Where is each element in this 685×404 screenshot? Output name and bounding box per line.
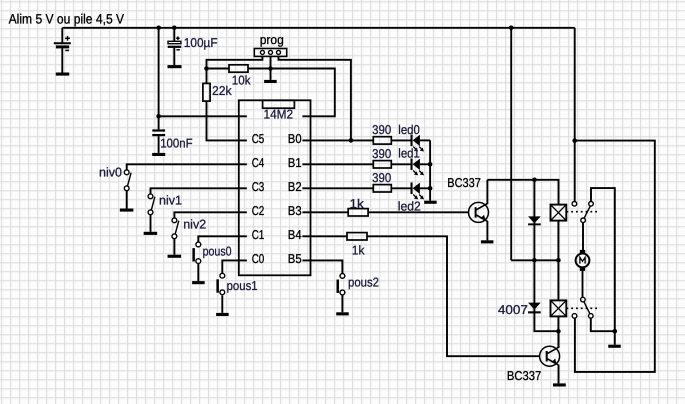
relay coil RL2 <box>551 300 567 316</box>
wire niv2 to ground <box>173 239 175 255</box>
svg-text:C2: C2 <box>252 203 265 218</box>
resistor R4 390 <box>373 161 391 168</box>
wire Q1 emitter <box>486 221 488 240</box>
resistor R1 10k <box>229 65 248 72</box>
wire 1k to Q2 base <box>367 236 540 356</box>
wire led cathode bus <box>429 140 431 200</box>
svg-text:niv1: niv1 <box>159 192 182 207</box>
wire +V rail right drop <box>574 28 576 141</box>
wire 1k to Q1 base <box>368 211 469 213</box>
capacitor C1 100uF (polarised) <box>168 28 182 65</box>
junction dot led bus B1 <box>428 162 433 167</box>
svg-text:B1: B1 <box>288 155 302 170</box>
wire SW2 right contact <box>591 318 615 331</box>
svg-text:4007: 4007 <box>498 302 528 317</box>
resistor R2 22k <box>203 83 210 101</box>
junction dot 100nF branch <box>156 26 161 31</box>
svg-text:100µF: 100µF <box>184 35 218 50</box>
wire motor to SW2 common <box>582 271 584 297</box>
relay contact SW2 <box>572 297 593 318</box>
resistor R7 1k <box>347 233 367 240</box>
diode D1 <box>528 216 541 225</box>
wire +V down to relay common <box>510 28 512 260</box>
svg-text:390: 390 <box>372 170 391 185</box>
transistor Q1 BC337 <box>469 202 489 222</box>
svg-text:pous2: pous2 <box>348 274 379 289</box>
push switch pous2 <box>337 274 345 295</box>
svg-text:14M2: 14M2 <box>264 107 294 122</box>
junction dot coil node <box>556 258 561 263</box>
svg-text:C1: C1 <box>252 227 265 242</box>
junction dot SW2 right contact <box>613 329 618 334</box>
wire SW1 common to motor <box>582 223 584 250</box>
switch niv2 <box>172 218 179 239</box>
junction dot relay contact feed <box>572 138 577 143</box>
wire pous0 to C1 <box>198 236 247 242</box>
svg-text:10k: 10k <box>232 72 251 87</box>
ground (100nF) <box>152 153 165 156</box>
junction dot diode chain mid <box>532 258 537 263</box>
wire pous0 to ground <box>197 264 199 282</box>
wire led2 to bus <box>420 187 430 189</box>
wire prog pin2 to ground <box>270 56 272 80</box>
svg-text:prog: prog <box>260 32 284 47</box>
ground (pous0) <box>192 281 205 284</box>
ground (contacts) <box>608 345 621 348</box>
ground (pous2) <box>336 312 349 315</box>
svg-text:1k: 1k <box>352 243 365 258</box>
wire coil RL1 to coil RL2 <box>557 221 559 301</box>
svg-text:pous0: pous0 <box>203 244 232 259</box>
wire SW1 right contact loop <box>591 188 615 345</box>
wire B5 to pous2 <box>302 260 342 273</box>
switch niv0 <box>124 170 131 191</box>
resistor R5 390 <box>373 185 391 192</box>
wire divider to 10k <box>207 68 230 70</box>
relay contact SW1 <box>572 202 593 223</box>
LED led0 <box>411 135 425 152</box>
wire niv1 to ground <box>150 215 152 232</box>
wire B1 row <box>302 163 373 165</box>
svg-text:niv0: niv0 <box>99 164 122 179</box>
wire prog pin1 to divider <box>207 56 263 68</box>
ground (pous1) <box>216 313 229 316</box>
relay coil RL1 <box>551 205 567 221</box>
wire Q1 collector <box>486 180 488 204</box>
svg-text:led1: led1 <box>398 146 420 161</box>
svg-text:B2: B2 <box>288 179 302 194</box>
wire B0 row <box>302 139 373 141</box>
wire B3 to 1k <box>302 211 348 213</box>
svg-text:C4: C4 <box>252 155 265 170</box>
wire 100nF branch vertical <box>158 28 160 130</box>
capacitor C2 100nF <box>152 129 165 153</box>
ground (Q2 emitter) <box>553 383 566 386</box>
wire 390 to led0 <box>391 139 410 141</box>
node +V supply rail <box>62 27 574 29</box>
wire pous1 to ground <box>221 295 223 313</box>
resistor R3 390 <box>373 137 391 144</box>
wire 10k to serial pin <box>248 69 335 117</box>
push switch pous1 <box>216 273 224 294</box>
svg-text:22k: 22k <box>212 83 232 98</box>
junction dot prog pin2 <box>268 66 273 71</box>
mechanical link RL2-SW2 <box>566 307 599 309</box>
junction dot diode branch top <box>532 178 537 183</box>
svg-text:100nF: 100nF <box>160 135 193 150</box>
svg-text:pous1: pous1 <box>227 278 258 293</box>
svg-text:led0: led0 <box>398 122 420 137</box>
wire coil RL2 to Q2 collector <box>557 316 559 348</box>
resistor R6 1k <box>348 209 368 216</box>
svg-text:390: 390 <box>372 122 391 137</box>
junction dot led bus B2 <box>428 186 433 191</box>
svg-text:Alim 5 V ou pile 4,5 V: Alim 5 V ou pile 4,5 V <box>9 12 125 27</box>
switch niv1 <box>148 194 155 215</box>
svg-text:C0: C0 <box>252 251 265 266</box>
svg-text:niv2: niv2 <box>183 216 206 231</box>
svg-text:B0: B0 <box>288 131 302 146</box>
wire to contact SW1 <box>574 141 576 202</box>
wire diode chain <box>534 180 558 331</box>
wire 22k to C5 <box>207 101 247 140</box>
junction dot 100uF branch <box>172 26 177 31</box>
motor M1 <box>576 250 590 271</box>
wire 22k top <box>206 69 208 84</box>
wire B2 row <box>302 187 373 189</box>
ground (led bus) <box>424 201 437 204</box>
ground (battery) <box>56 73 70 76</box>
wire pous1 to C0 <box>222 260 247 273</box>
ground (niv0) <box>120 209 134 212</box>
connector J1 prog <box>254 49 286 57</box>
svg-text:BC337: BC337 <box>447 175 481 190</box>
wire niv2 to C2 <box>174 212 247 218</box>
wire 390 to led1 <box>391 163 410 165</box>
wire Q2 collector <box>558 331 560 348</box>
wire prog pin3 serial-in <box>279 56 351 140</box>
wire +V to coil bottoms <box>511 259 558 261</box>
wire niv0 to C4 <box>127 164 247 170</box>
wire B4 to 1k <box>302 235 347 237</box>
diode D2 4007 <box>528 303 541 314</box>
svg-text:C3: C3 <box>252 179 265 194</box>
wire pous2 to ground <box>341 295 343 313</box>
ground (100uF) <box>168 65 182 68</box>
ground (prog pin2) <box>264 80 277 83</box>
wire Q2 emitter <box>558 365 560 384</box>
junction dot divider node <box>204 66 209 71</box>
svg-text:C5: C5 <box>252 131 265 146</box>
svg-text:B4: B4 <box>288 227 302 242</box>
wire +V outer loop <box>575 141 655 372</box>
wire niv0 to ground <box>126 191 128 209</box>
wire niv1 to C3 <box>151 188 247 194</box>
wire 390 to led2 <box>391 187 410 189</box>
junction dot +V rail to relays <box>509 26 514 31</box>
mechanical link RL1-SW1 <box>566 211 598 213</box>
ground (niv1) <box>144 232 158 235</box>
transistor Q2 BC337 <box>540 346 560 366</box>
wire led0 to bus <box>420 139 430 141</box>
junction dot coil2 bottom node <box>556 329 561 334</box>
op-amp U1 14M2 PICAXE chip body <box>239 100 311 275</box>
LED led1 <box>411 159 425 176</box>
svg-text:B3: B3 <box>288 203 302 218</box>
svg-text:BC337: BC337 <box>507 368 541 383</box>
wire to chip pin1 (top-left) <box>159 115 247 117</box>
svg-text:390: 390 <box>372 146 391 161</box>
svg-text:B5: B5 <box>288 251 302 266</box>
ground (Q1 emitter) <box>481 240 494 243</box>
LED led2 <box>411 183 425 200</box>
svg-text:1k: 1k <box>350 196 365 211</box>
wire Q1 collector to relay RL1 <box>487 180 558 205</box>
junction dot chip-Vdd branch <box>156 114 161 119</box>
ground (niv2) <box>168 255 182 258</box>
battery B1 (Alim 5V / pile 4,5V) <box>54 28 71 73</box>
wire led1 to bus <box>420 163 430 165</box>
push switch pous0 <box>192 242 200 263</box>
junction dot serial-out/B0 <box>349 138 354 143</box>
